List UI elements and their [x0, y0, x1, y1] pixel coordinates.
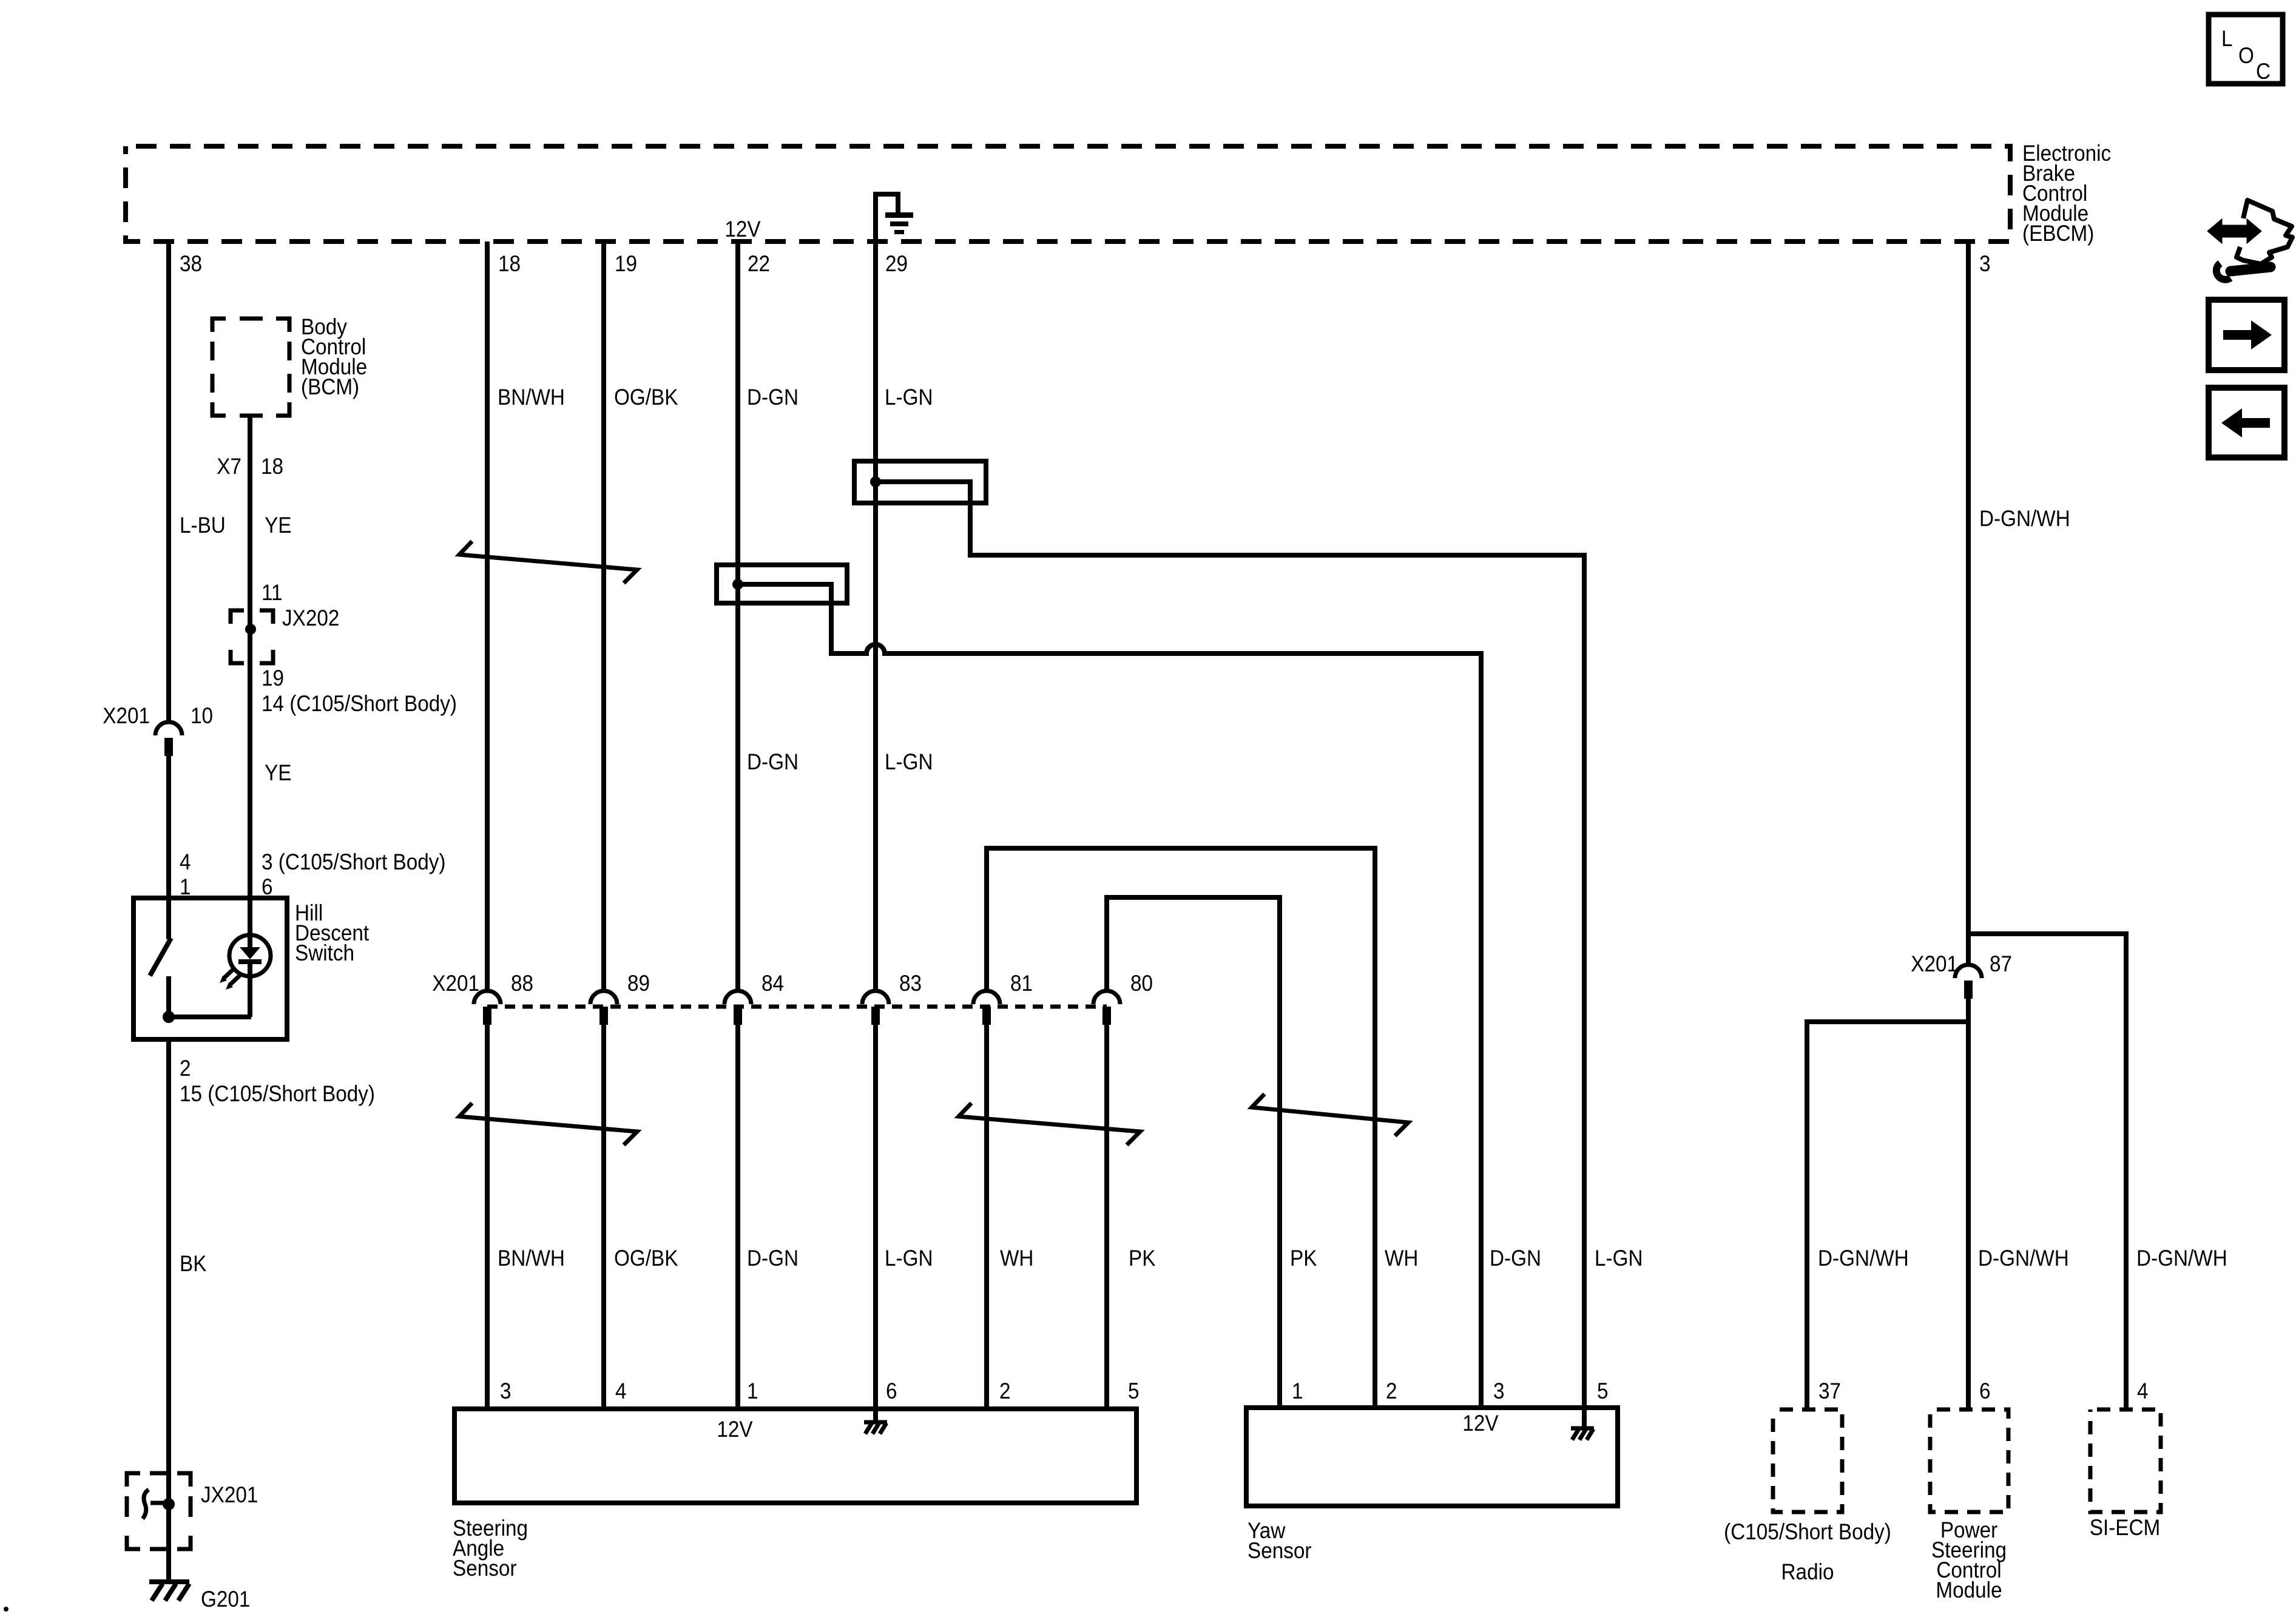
- svg-text:Switch: Switch: [295, 940, 354, 965]
- connector X201 pin 89: [590, 991, 617, 1004]
- connector X201 pin 80: [1093, 991, 1120, 1004]
- svg-text:4: 4: [180, 849, 191, 874]
- connector X201 pin 10: [155, 722, 182, 735]
- connector X201 pin 88: [474, 991, 501, 1004]
- JX201 splice tap curl: [150, 1501, 169, 1505]
- wire pin38 L-BU from EBCM: [166, 241, 171, 722]
- svg-text:L-GN: L-GN: [885, 749, 933, 774]
- wire to G201: [166, 1549, 171, 1582]
- connector X201 pin 83: [862, 991, 889, 1004]
- wire junction to LED cathode: [169, 1014, 251, 1019]
- svg-text:6: 6: [1979, 1379, 1991, 1403]
- twisted pair mark BN-WH/OG-BK: [459, 541, 637, 583]
- svg-text:18: 18: [261, 454, 283, 479]
- wire BN/WH pin18: [485, 241, 490, 991]
- svg-text:15 (C105/Short Body): 15 (C105/Short Body): [180, 1081, 375, 1106]
- svg-text:6: 6: [886, 1379, 897, 1403]
- Radio dashed box: [1773, 1409, 1842, 1512]
- branch to SI-ECM: [1968, 934, 2126, 1409]
- node: shield tap junction: [870, 476, 881, 487]
- shield drain wire to yaw L-GN: [876, 482, 1584, 1408]
- BCM dashed box: [212, 319, 289, 416]
- diagnostic tool icon: [2209, 200, 2292, 280]
- svg-text:X201: X201: [1911, 951, 1958, 976]
- svg-text:18: 18: [498, 251, 521, 276]
- twisted pair mark 88/89: [459, 1103, 637, 1145]
- wire D-GN/WH from EBCM pin 3: [1966, 241, 1971, 965]
- forward arrow box: [2209, 300, 2284, 370]
- svg-text:3: 3: [500, 1379, 512, 1403]
- svg-text:4: 4: [615, 1379, 627, 1403]
- svg-text:L-BU: L-BU: [180, 513, 226, 538]
- svg-text:PK: PK: [1129, 1246, 1156, 1271]
- svg-text:Radio: Radio: [1781, 1559, 1834, 1584]
- switch lower contact: [166, 976, 171, 1017]
- svg-text:D-GN: D-GN: [747, 1246, 799, 1271]
- ground inside EBCM at pin 29: [876, 194, 898, 241]
- SI-ECM dashed box: [2090, 1409, 2161, 1512]
- svg-text:89: 89: [627, 971, 650, 996]
- svg-text:3: 3: [1979, 251, 1991, 276]
- wire YE from BCM: [248, 416, 252, 899]
- LED emission arrows: [224, 968, 235, 978]
- ground stem inside SAS: [873, 1409, 878, 1423]
- svg-text:(EBCM): (EBCM): [2022, 221, 2094, 246]
- wire to switch pin 1: [166, 756, 171, 899]
- svg-text:3: 3: [1493, 1379, 1505, 1403]
- EBCM module dashed outline: [126, 146, 2010, 241]
- svg-text:19: 19: [615, 251, 637, 276]
- svg-text:10: 10: [191, 703, 213, 728]
- connector X201 pin 84: [724, 991, 751, 1004]
- svg-text:84: 84: [761, 971, 784, 996]
- junction JX202 dashed box (corner marks): [231, 610, 273, 663]
- svg-text:YE: YE: [265, 513, 291, 538]
- svg-text:37: 37: [1818, 1379, 1841, 1403]
- svg-text:Sensor: Sensor: [453, 1556, 517, 1581]
- svg-text:SI-ECM: SI-ECM: [2090, 1515, 2161, 1540]
- svg-text:3 (C105/Short Body): 3 (C105/Short Body): [262, 849, 445, 874]
- wire BK from switch pin 2: [166, 1039, 171, 1473]
- svg-text:2: 2: [180, 1056, 191, 1081]
- svg-text:D-GN: D-GN: [1490, 1246, 1541, 1271]
- svg-text:D-GN/WH: D-GN/WH: [1979, 506, 2070, 531]
- svg-text:OG/BK: OG/BK: [614, 385, 678, 410]
- page corner mark: [4, 1607, 8, 1612]
- svg-text:BN/WH: BN/WH: [498, 1246, 565, 1271]
- svg-text:38: 38: [180, 251, 202, 276]
- svg-text:WH: WH: [1000, 1246, 1033, 1271]
- wire OG/BK below X201 to SAS: [601, 1022, 606, 1409]
- connector X201 pin 81: [973, 991, 1000, 1004]
- shield box around L-GN: [854, 461, 986, 503]
- svg-text:L-GN: L-GN: [885, 385, 933, 410]
- svg-text:BN/WH: BN/WH: [498, 385, 565, 410]
- svg-text:PK: PK: [1290, 1246, 1317, 1271]
- branch to Radio: [1807, 1022, 1968, 1409]
- svg-text:X201: X201: [432, 971, 479, 996]
- JX201 junction dot: [163, 1498, 175, 1510]
- wire D-GN pin22: [735, 241, 740, 991]
- Yaw Sensor box: [1246, 1408, 1618, 1506]
- svg-text:5: 5: [1597, 1379, 1609, 1403]
- svg-text:X201: X201: [103, 703, 150, 728]
- node: shield tap junction 2: [732, 579, 743, 590]
- svg-text:19: 19: [262, 666, 284, 690]
- wire BN/WH below X201 to SAS: [485, 1022, 490, 1409]
- svg-text:11: 11: [262, 580, 283, 605]
- svg-text:12V: 12V: [717, 1417, 753, 1442]
- svg-text:G201: G201: [201, 1587, 250, 1612]
- svg-text:29: 29: [885, 251, 908, 276]
- connector X201 pin 87: [1955, 965, 1982, 978]
- svg-text:1: 1: [1292, 1379, 1303, 1403]
- svg-text:5: 5: [1128, 1379, 1140, 1403]
- svg-text:JX201: JX201: [201, 1482, 258, 1507]
- svg-text:12V: 12V: [724, 217, 761, 241]
- svg-text:L: L: [2221, 26, 2233, 51]
- twisted pair mark 81/80: [959, 1103, 1140, 1145]
- back arrow box: [2209, 388, 2284, 457]
- shield drain wire to yaw D-GN with hop over L-GN: [738, 584, 1481, 1408]
- svg-text:83: 83: [899, 971, 922, 996]
- PSCM dashed box: [1930, 1409, 2008, 1512]
- svg-text:L-GN: L-GN: [885, 1246, 933, 1271]
- Steering Angle Sensor box: [454, 1409, 1136, 1503]
- svg-text:X7: X7: [217, 454, 241, 479]
- shield box around D-GN: [717, 565, 847, 603]
- svg-text:D-GN/WH: D-GN/WH: [2136, 1246, 2227, 1271]
- svg-text:Sensor: Sensor: [1248, 1538, 1312, 1563]
- svg-text:D-GN/WH: D-GN/WH: [1978, 1246, 2069, 1271]
- junction JX201 dashed box: [127, 1473, 191, 1549]
- wire below X201:87: [1966, 999, 1971, 1409]
- svg-text:1: 1: [747, 1379, 758, 1403]
- svg-text:D-GN: D-GN: [747, 385, 799, 410]
- svg-text:(BCM): (BCM): [301, 374, 359, 399]
- svg-text:88: 88: [511, 971, 533, 996]
- svg-text:L-GN: L-GN: [1595, 1246, 1643, 1271]
- svg-text:2: 2: [999, 1379, 1011, 1403]
- svg-text:O: O: [2238, 43, 2254, 68]
- Hill Descent Switch box: [133, 898, 287, 1039]
- switch pole wire: [166, 899, 171, 939]
- svg-text:D-GN: D-GN: [747, 749, 799, 774]
- wire WH below X201 to SAS: [984, 1022, 989, 1409]
- svg-text:14 (C105/Short Body): 14 (C105/Short Body): [262, 691, 457, 716]
- ground symbol inside yaw box: [1571, 1426, 1594, 1431]
- wire D-GN below X201 to SAS: [735, 1022, 740, 1409]
- svg-text:BK: BK: [180, 1251, 207, 1276]
- svg-text:WH: WH: [1385, 1246, 1418, 1271]
- svg-text:D-GN/WH: D-GN/WH: [1818, 1246, 1909, 1271]
- wire PK to yaw sensor: [1107, 897, 1280, 1408]
- svg-text:12V: 12V: [1462, 1411, 1499, 1436]
- svg-text:4: 4: [2137, 1379, 2149, 1403]
- svg-text:87: 87: [1990, 951, 2012, 976]
- node: switch output junction: [163, 1011, 175, 1023]
- svg-text:81: 81: [1010, 971, 1033, 996]
- wire WH to yaw sensor: [987, 848, 1375, 1408]
- JX202 junction dot: [245, 624, 256, 635]
- svg-text:22: 22: [748, 251, 770, 276]
- svg-text:JX202: JX202: [282, 606, 339, 630]
- svg-text:YE: YE: [265, 760, 291, 785]
- ground symbol inside SAS: [864, 1420, 887, 1425]
- ground stem inside yaw box: [1582, 1408, 1587, 1428]
- ground G201: [149, 1579, 189, 1584]
- wire L-GN pin29: [873, 241, 878, 991]
- svg-text:2: 2: [1386, 1379, 1397, 1403]
- LOC legend box: [2209, 15, 2283, 84]
- LED indicator: [229, 935, 271, 976]
- switch blade: [150, 938, 171, 976]
- svg-text:OG/BK: OG/BK: [614, 1246, 678, 1271]
- svg-text:80: 80: [1130, 971, 1153, 996]
- wire L-GN below X201 to SAS: [873, 1022, 878, 1409]
- connector X201 dashed tie line: [487, 1005, 1107, 1009]
- svg-text:C: C: [2256, 59, 2271, 84]
- svg-text:Module: Module: [1936, 1578, 2002, 1602]
- wire PK below X201 to SAS: [1104, 1022, 1109, 1409]
- svg-text:(C105/Short Body): (C105/Short Body): [1724, 1519, 1891, 1544]
- twisted pair mark yaw PK/WH: [1252, 1094, 1408, 1136]
- wire OG/BK pin19: [601, 241, 606, 991]
